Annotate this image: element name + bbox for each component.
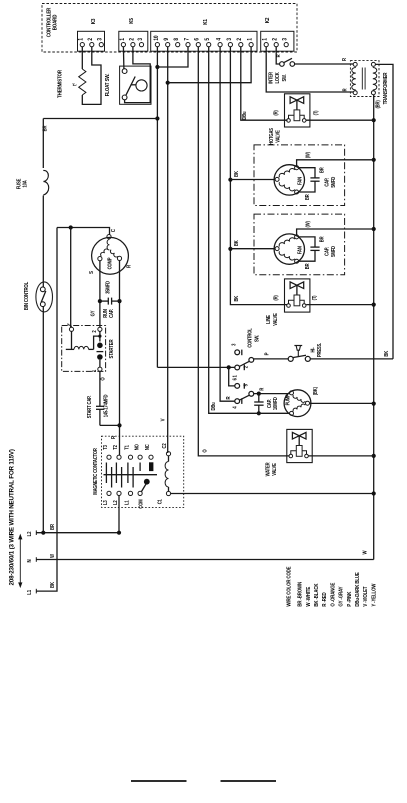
svg-text:SW.: SW. xyxy=(254,335,260,342)
svg-text:3: 3 xyxy=(282,38,289,41)
hi-pressure switch xyxy=(288,356,293,361)
svg-text:O: O xyxy=(202,449,209,453)
svg-text:START CAP.: START CAP. xyxy=(87,396,93,418)
svg-text:1: 1 xyxy=(119,38,126,41)
svg-text:CAP.: CAP. xyxy=(324,178,330,187)
svg-text:HOTGAS: HOTGAS xyxy=(268,128,274,145)
svg-text:W -WHITE: W -WHITE xyxy=(306,586,313,606)
transformer xyxy=(350,61,379,97)
svg-text:T1: T1 xyxy=(124,445,130,450)
pump motor xyxy=(284,390,311,417)
hot gas valve xyxy=(285,94,310,127)
wire comp R to contactor T2 (R) xyxy=(119,261,121,456)
svg-text:DBu-DARK BLUE: DBu-DARK BLUE xyxy=(355,572,362,607)
svg-text:8: 8 xyxy=(174,38,181,41)
svg-text:BIN CONTROL: BIN CONTROL xyxy=(23,282,30,310)
svg-text:V -VIOLET: V -VIOLET xyxy=(363,586,370,606)
svg-text:W: W xyxy=(362,550,369,554)
svg-text:K1: K1 xyxy=(203,19,210,25)
wire fan 1 to W bus (W) xyxy=(297,160,374,166)
wire K5 pin1 to float switch xyxy=(122,47,125,69)
svg-text:10MFD: 10MFD xyxy=(273,397,279,410)
starter relay xyxy=(62,326,106,372)
wire fan 2 to W bus (W) xyxy=(297,229,374,235)
svg-text:INTER: INTER xyxy=(268,71,274,83)
fan assembly box 2 xyxy=(254,214,345,275)
svg-text:K5: K5 xyxy=(129,18,136,24)
power entry L2 xyxy=(36,532,119,534)
svg-text:(T): (T) xyxy=(311,295,317,300)
svg-text:L3: L3 xyxy=(103,500,109,505)
wire K1 pin1 to pin9 xyxy=(168,47,251,83)
svg-text:TRANSFORMER: TRANSFORMER xyxy=(382,72,389,104)
power entry N / neutral line (W) xyxy=(36,559,374,561)
svg-text:L2: L2 xyxy=(27,531,34,536)
svg-text:O: O xyxy=(100,377,107,381)
svg-text:FAN: FAN xyxy=(297,176,303,185)
svg-text:SW.: SW. xyxy=(281,74,287,81)
svg-text:L1: L1 xyxy=(27,590,34,595)
float switch xyxy=(120,66,151,104)
svg-text:K2: K2 xyxy=(265,17,272,23)
fan motor 2 xyxy=(274,234,304,264)
svg-text:2: 2 xyxy=(237,38,244,41)
svg-text:CONTROL: CONTROL xyxy=(247,328,253,348)
wire K1 pin3 net (BK) to fans and line valve xyxy=(230,47,287,305)
svg-text:GY -GRAY: GY -GRAY xyxy=(338,586,345,607)
svg-text:DBu: DBu xyxy=(242,111,248,119)
wire fan 2 feed (BK) xyxy=(230,248,275,250)
magnetic contactor xyxy=(102,436,184,507)
fan motor 1 xyxy=(274,165,304,195)
wire K1 pin2 to hot gas valve (DBu) xyxy=(241,47,288,121)
svg-text:COM: COM xyxy=(138,499,144,508)
svg-text:FAN: FAN xyxy=(297,246,303,255)
connector K2 xyxy=(261,31,294,51)
svg-text:PUMP: PUMP xyxy=(285,394,291,405)
svg-text:FLOAT SW.: FLOAT SW. xyxy=(104,73,111,96)
svg-text:FUSE: FUSE xyxy=(16,179,22,189)
svg-text:T3: T3 xyxy=(103,445,109,450)
svg-text:PRESS.: PRESS. xyxy=(317,343,323,357)
wire K5 pin2 to float switch xyxy=(125,47,151,103)
contactor NO/NC/COM contacts xyxy=(138,455,142,459)
svg-text:5: 5 xyxy=(205,38,212,41)
svg-text:L2: L2 xyxy=(113,500,119,505)
svg-text:LOCK: LOCK xyxy=(275,72,281,84)
svg-text:HI-: HI- xyxy=(310,347,316,353)
svg-text:STARTER: STARTER xyxy=(109,339,116,358)
svg-text:LINE: LINE xyxy=(266,315,272,324)
contactor crossbar xyxy=(104,474,158,476)
wire L1 riser (BK) xyxy=(36,228,57,592)
wire control switch R to pump xyxy=(254,393,290,395)
svg-text:2: 2 xyxy=(129,38,136,41)
svg-text:BR: BR xyxy=(304,194,310,200)
bin control switch xyxy=(36,282,53,312)
svg-text:3: 3 xyxy=(137,38,144,41)
wire K1 pin9 net (V) xyxy=(167,47,169,453)
svg-text:BR: BR xyxy=(304,263,310,269)
wire control switch P to hi-press xyxy=(254,358,289,360)
svg-text:1: 1 xyxy=(247,38,254,41)
svg-text:BR: BR xyxy=(50,523,56,529)
svg-text:145-174MFD: 145-174MFD xyxy=(103,394,109,417)
svg-text:(R): (R) xyxy=(273,295,279,301)
svg-text:CAP.: CAP. xyxy=(266,399,272,408)
svg-text:P -PINK: P -PINK xyxy=(346,591,353,606)
wire starter feed xyxy=(70,228,72,328)
svg-text:3: 3 xyxy=(97,38,104,41)
fan assembly box 1 xyxy=(254,145,345,206)
svg-text:COMP: COMP xyxy=(107,258,113,270)
svg-text:2: 2 xyxy=(88,38,95,41)
wire line valve to W bus (T) xyxy=(306,304,374,306)
svg-text:C2: C2 xyxy=(161,443,167,448)
connector K5 xyxy=(119,31,148,51)
wire K1 pin5 to pump/cap (DBu) xyxy=(209,47,258,414)
wire bin control to L2 line xyxy=(42,307,44,533)
svg-text:BK -BLACK: BK -BLACK xyxy=(314,583,321,606)
svg-text:BR: BR xyxy=(319,236,325,242)
svg-text:BK: BK xyxy=(50,581,56,587)
svg-text:10A: 10A xyxy=(22,180,28,188)
wire K1 pin6 to water valve (O) xyxy=(198,47,289,456)
fuse xyxy=(43,170,48,195)
wire K1 pin4 to control switch 4 (R) xyxy=(220,47,235,402)
connector K3 xyxy=(78,31,105,51)
wire transformer to BK bus xyxy=(375,64,393,359)
capacitor 10MFD xyxy=(258,394,260,402)
svg-text:1: 1 xyxy=(78,38,85,41)
capacitor 5MFD fan 1 xyxy=(299,168,315,178)
svg-text:R -RED: R -RED xyxy=(322,592,329,607)
contactor coil xyxy=(166,452,170,456)
interlock switch xyxy=(276,47,280,64)
svg-text:THERMISTOR: THERMISTOR xyxy=(57,70,64,98)
svg-text:BK: BK xyxy=(234,240,240,246)
footer line 2 xyxy=(221,780,277,782)
starter contacts xyxy=(99,331,101,341)
svg-text:NC: NC xyxy=(145,444,151,450)
wire starter to start capacitor (O) xyxy=(99,371,101,406)
wire water valve to W bus xyxy=(308,455,373,457)
wire BR bus left vertical xyxy=(42,119,44,169)
controller board outline xyxy=(42,4,297,53)
svg-text:BR -BROWN: BR -BROWN xyxy=(297,581,304,606)
svg-text:4: 4 xyxy=(216,38,223,41)
wire hot gas valve to W bus (T) xyxy=(306,119,374,121)
svg-text:CAP.: CAP. xyxy=(324,247,330,256)
svg-text:35MFD: 35MFD xyxy=(105,280,111,293)
run capacitor 35MFD xyxy=(100,300,108,302)
svg-text:BR: BR xyxy=(319,167,325,173)
svg-text:(BK): (BK) xyxy=(312,387,318,396)
wire contactor C1 to W bus xyxy=(171,493,374,495)
W bus vertical xyxy=(373,95,375,560)
svg-text:1: 1 xyxy=(262,38,269,41)
wire K1 pin7 to pin10 xyxy=(157,47,188,67)
svg-text:3: 3 xyxy=(226,38,233,41)
water valve xyxy=(287,429,312,462)
wire hi-press to BK bus xyxy=(310,358,393,360)
connector K1 xyxy=(151,31,257,51)
wire K2 pin1 to transformer (R) xyxy=(266,47,353,92)
svg-text:(T): (T) xyxy=(313,110,319,115)
svg-text:WATER: WATER xyxy=(265,462,271,477)
svg-text:CAP.: CAP. xyxy=(108,309,114,318)
capacitor 5MFD fan 2 xyxy=(299,237,315,247)
svg-text:VALVE: VALVE xyxy=(275,130,281,142)
svg-text:2: 2 xyxy=(272,38,279,41)
svg-text:7: 7 xyxy=(184,38,191,41)
svg-text:W: W xyxy=(50,553,56,557)
wire fuse to bin control xyxy=(42,196,44,288)
svg-text:208-230/60/1 (3 WIRE WITH NEU: 208-230/60/1 (3 WIRE WITH NEUTRAL FOR 11… xyxy=(9,449,16,585)
svg-text:t°: t° xyxy=(72,83,79,86)
wire fan 1 feed (BK) xyxy=(230,179,275,181)
thermistor xyxy=(81,47,83,69)
wire control switch common feed xyxy=(157,366,235,368)
svg-text:9: 9 xyxy=(164,38,171,41)
svg-text:MAGNETIC CONTACTOR: MAGNETIC CONTACTOR xyxy=(93,448,99,495)
wire thermistor loop to K3 pin 2 xyxy=(82,47,101,105)
svg-text:(R): (R) xyxy=(273,110,279,116)
svg-text:WIRE COLOR CODE: WIRE COLOR CODE xyxy=(286,566,293,607)
svg-text:5MFD: 5MFD xyxy=(330,176,336,187)
wire K1 pin10 net (BR) xyxy=(156,47,158,368)
svg-text:L1: L1 xyxy=(124,500,130,505)
svg-text:6: 6 xyxy=(194,38,201,41)
svg-text:10: 10 xyxy=(153,35,160,40)
svg-text:NO: NO xyxy=(134,444,140,450)
line valve xyxy=(285,279,310,312)
svg-text:T2: T2 xyxy=(113,445,119,450)
compressor COMP motor xyxy=(92,237,129,274)
footer line 1 xyxy=(131,780,187,782)
svg-text:VALVE: VALVE xyxy=(272,463,278,475)
wire compressor C feed xyxy=(57,228,110,235)
svg-text:GY: GY xyxy=(90,310,96,317)
svg-text:BK: BK xyxy=(234,170,240,176)
wire contactor L2 to power L2 (BR) xyxy=(118,496,120,533)
svg-text:DBu: DBu xyxy=(211,402,217,410)
start capacitor 145-174MFD xyxy=(96,405,104,407)
svg-text:K3: K3 xyxy=(91,18,98,24)
wire pump bottom xyxy=(257,412,289,414)
svg-text:5MFD: 5MFD xyxy=(330,245,336,256)
svg-text:(W): (W) xyxy=(305,221,311,228)
voltage range arrow xyxy=(19,538,21,585)
svg-text:RUN: RUN xyxy=(102,309,108,318)
wire pump to W bus (BK) xyxy=(310,402,374,404)
svg-text:C1: C1 xyxy=(157,499,163,504)
wire interlock to transformer xyxy=(294,63,353,65)
svg-text:BK: BK xyxy=(384,350,390,356)
svg-text:6 1: 6 1 xyxy=(232,375,238,381)
svg-text:Y -YELLOW: Y -YELLOW xyxy=(371,583,378,606)
svg-text:(W): (W) xyxy=(305,152,311,159)
wire comp S to starter (GY) xyxy=(99,261,101,328)
svg-text:VALVE: VALVE xyxy=(272,313,278,325)
svg-text:O -ORANGE: O -ORANGE xyxy=(330,582,337,607)
svg-text:(BR): (BR) xyxy=(375,100,381,109)
svg-text:BK: BK xyxy=(233,295,239,301)
svg-text:BOARD: BOARD xyxy=(52,14,59,30)
wire BR bus to K1 pin10 xyxy=(43,118,157,120)
